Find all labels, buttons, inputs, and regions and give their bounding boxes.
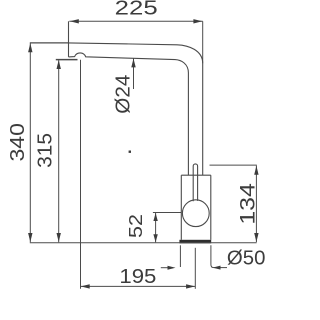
extension stub right for Ø50 (211, 245, 214, 267)
dimension line 52 (155, 213, 157, 242)
arrowhead 225 right (193, 19, 202, 23)
arrowhead Ø24 up (131, 58, 135, 67)
reference segment for 315 (56, 59, 78, 61)
arrowhead 52 up (153, 213, 157, 221)
leader arrow shaft left Ø50 (161, 267, 173, 269)
svg-text:134: 134 (235, 183, 259, 225)
arrowhead 315 down (57, 233, 61, 242)
arrowhead 134 up (254, 166, 258, 175)
ball joint circle (182, 200, 209, 227)
body top line (181, 174, 211, 176)
arrowhead 195 right (186, 284, 195, 288)
body right edge (210, 175, 212, 240)
spout top edge and right outer corner (69, 43, 203, 175)
svg-text:225: 225 (115, 0, 158, 19)
arrowhead Ø50 left pointing right (168, 266, 176, 270)
arrowhead 340 up (28, 43, 32, 52)
extension line right for 195 (faucet axis) (194, 248, 196, 289)
base plate dark band (179, 240, 211, 244)
dimension line 340 (29, 43, 31, 242)
counter reference line (30, 242, 257, 244)
body left edge (180, 175, 182, 240)
arrowhead Ø50 right pointing left (213, 266, 221, 270)
extension line top for 340 (30, 42, 68, 44)
svg-text:Ø50: Ø50 (227, 248, 266, 270)
extension line right for 225 (202, 21, 204, 63)
leader arrow shaft right Ø50 (214, 267, 227, 269)
arrowhead 315 up (57, 60, 61, 69)
dimension line 315 (58, 60, 60, 242)
svg-text:52: 52 (125, 214, 146, 238)
spout tip edge + 225 left extension line (68, 21, 70, 57)
extension line left for 195 (aerator axis) (80, 60, 82, 289)
extension line for 52 (153, 212, 181, 214)
leader line Ø24 (133, 58, 135, 89)
extension stub left for Ø50 (179, 245, 181, 267)
arrowhead 195 left (81, 284, 90, 288)
svg-text:340: 340 (7, 123, 29, 162)
dimension line 195 (81, 285, 196, 287)
stray dot (129, 151, 131, 153)
arrowhead 225 left (70, 19, 79, 23)
svg-text:315: 315 (35, 133, 57, 168)
arrowhead 134 down (254, 233, 258, 242)
extension line top for 134 (210, 164, 257, 166)
svg-text:Ø24: Ø24 (113, 75, 135, 114)
arrowhead 52 down (153, 234, 157, 242)
svg-text:195: 195 (119, 266, 156, 288)
spout bottom edge with aerator bump and inner corner (69, 53, 189, 175)
lever rod (193, 164, 197, 201)
arrowhead 340 down (28, 233, 32, 242)
dimension line 225 (69, 20, 202, 22)
dimension line 134 (255, 166, 257, 243)
